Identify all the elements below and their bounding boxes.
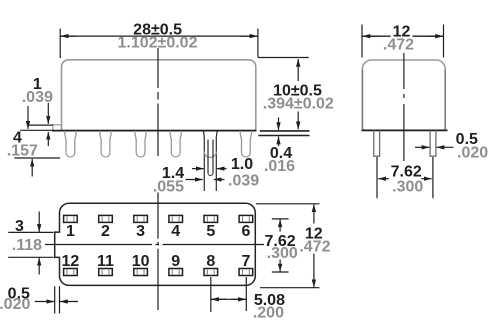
horizontal center line (bottom view)	[45, 244, 264, 246]
dimension 5.08 / .200 (pad pitch)	[210, 277, 212, 312]
pin 4 (side view)	[170, 131, 181, 157]
pad 12	[64, 269, 78, 276]
svg-text:12: 12	[62, 253, 80, 270]
mounting tab (side view bottom-left)	[53, 125, 62, 131]
dimension 7.62 / .300 (row spacing)	[272, 218, 289, 220]
svg-text:.157: .157	[7, 142, 38, 159]
dimension 7.62 / .300 (end view pin spacing)	[376, 157, 378, 198]
svg-text:8: 8	[206, 253, 215, 270]
pad 7	[239, 269, 253, 276]
dimension 12 / .472 (end view width)	[361, 25, 363, 58]
body left edge accent (end view)	[361, 70, 363, 129]
pad 11	[99, 269, 113, 276]
svg-text:5: 5	[206, 223, 215, 240]
pin 6 (side view)	[240, 131, 251, 157]
center line (vertical, side & bottom views)	[157, 48, 159, 156]
pad 8	[204, 269, 218, 276]
center line (end view)	[403, 53, 405, 161]
svg-text:.039: .039	[22, 89, 53, 106]
right pin (end view)	[430, 131, 436, 157]
standoff upper reference line (0.4 dim)	[260, 130, 310, 132]
seating plane line	[52, 130, 256, 132]
pad 2	[99, 215, 113, 222]
seating line (end view)	[362, 129, 448, 131]
svg-text:.016: .016	[264, 158, 295, 175]
svg-text:1: 1	[66, 223, 75, 240]
pin 1 (side view)	[65, 131, 76, 157]
svg-text:3: 3	[136, 223, 145, 240]
dimension 0.4 / .016 (standoff)	[278, 118, 280, 131]
body right edge accent (end view)	[444, 70, 446, 129]
dimension 4 / .157 (pin length)	[14, 157, 60, 159]
dimension 3 / .118 (rib position)	[8, 231, 53, 233]
svg-text:.118: .118	[12, 237, 42, 254]
svg-text:7: 7	[241, 253, 250, 270]
svg-text:3: 3	[15, 218, 24, 235]
svg-text:.200: .200	[253, 305, 284, 322]
svg-text:11: 11	[97, 253, 114, 270]
left pin (end view)	[374, 131, 380, 157]
svg-text:.039: .039	[228, 173, 259, 190]
pin 2 (side view)	[100, 131, 111, 157]
svg-text:1.102±0.02: 1.102±0.02	[118, 34, 198, 51]
svg-text:.020: .020	[457, 145, 488, 162]
relay body outline (end view)	[362, 60, 445, 130]
seating level extension line (left)	[20, 129, 53, 131]
svg-text:.020: .020	[0, 296, 30, 313]
svg-text:4: 4	[171, 223, 180, 240]
svg-text:.394±0.02: .394±0.02	[263, 96, 334, 113]
dimension 1.4 / .055 (pin width) lower arrows	[186, 179, 203, 181]
pin 3 (side view)	[135, 131, 146, 157]
dimension 28±0.5 width	[59, 29, 61, 58]
pin 5 wide part (side view, dimensioned pin)	[202, 131, 205, 191]
dimension 1.0 / .039 (pin tip width) upper arrows	[192, 168, 204, 170]
pad 10	[134, 269, 148, 276]
relay body outline (side view)	[62, 60, 256, 131]
pad 9	[169, 269, 183, 276]
dimension 12 / .472 (bottom view width)	[256, 203, 320, 205]
svg-text:.300: .300	[392, 178, 423, 195]
dimension 0.5 / .020 (pin thickness)	[415, 146, 429, 148]
svg-text:6: 6	[241, 223, 250, 240]
pad 5	[204, 215, 218, 222]
svg-text:.472: .472	[299, 239, 330, 256]
dimension 1 / .039 (tab height)	[27, 124, 53, 126]
svg-text:2: 2	[101, 223, 110, 240]
svg-text:9: 9	[171, 253, 180, 270]
dimension 0.5 / .020 (rib protrusion)	[54, 286, 56, 313]
relay body outline (bottom view with rib)	[55, 203, 256, 285]
pad 3	[134, 215, 148, 222]
svg-text:.300: .300	[267, 245, 298, 262]
pad 1	[64, 215, 78, 222]
pin 5 narrow part	[207, 140, 209, 174]
pad 6	[239, 215, 253, 222]
svg-text:1.0: 1.0	[231, 156, 253, 173]
pad 4	[169, 215, 183, 222]
svg-text:10: 10	[132, 253, 150, 270]
svg-text:.055: .055	[153, 178, 184, 195]
standoff lower reference line (0.4 dim)	[258, 135, 309, 137]
svg-text:.472: .472	[383, 36, 414, 53]
dimension 10±0.5 height	[258, 57, 309, 59]
